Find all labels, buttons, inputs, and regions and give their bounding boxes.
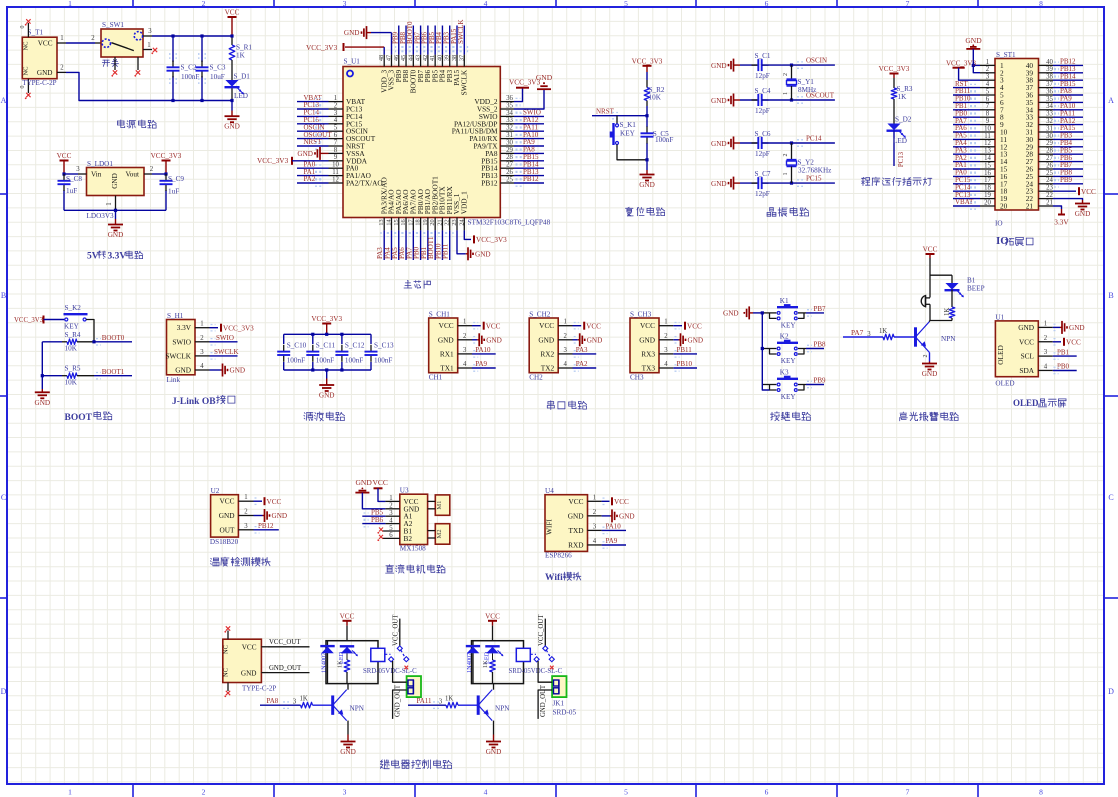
svg-text:SWCLK: SWCLK: [165, 351, 191, 360]
svg-text:ESP8266: ESP8266: [545, 551, 572, 559]
svg-text:PA2: PA2: [304, 175, 316, 183]
svg-text:4: 4: [334, 117, 338, 124]
svg-text:1: 1: [147, 42, 150, 49]
svg-text:1uF: 1uF: [66, 187, 77, 195]
svg-text:27: 27: [1046, 155, 1053, 162]
svg-text:VCC: VCC: [38, 40, 53, 48]
svg-text:S_C11: S_C11: [316, 341, 336, 349]
svg-text:5: 5: [389, 525, 393, 532]
svg-text:PB12: PB12: [481, 179, 498, 188]
svg-text:GND: GND: [475, 250, 491, 258]
svg-text:39: 39: [1046, 66, 1053, 73]
svg-text:SWCLK: SWCLK: [459, 69, 468, 95]
svg-text:4: 4: [1044, 363, 1048, 370]
svg-text:SCL: SCL: [1021, 352, 1035, 361]
svg-text:GND: GND: [37, 69, 53, 77]
svg-text:M2: M2: [436, 529, 443, 538]
svg-text:GND: GND: [711, 180, 727, 188]
svg-text:26: 26: [1046, 162, 1053, 169]
svg-text:VCC: VCC: [1081, 188, 1096, 196]
svg-text:PC15: PC15: [806, 175, 822, 183]
svg-text:3: 3: [867, 331, 871, 338]
svg-text:1: 1: [593, 494, 596, 501]
svg-text:D: D: [1108, 687, 1114, 696]
svg-text:VCC: VCC: [485, 612, 500, 620]
svg-text:35: 35: [506, 102, 513, 109]
svg-text:1N4007: 1N4007: [466, 653, 473, 673]
svg-text:5: 5: [334, 125, 338, 132]
svg-text:2: 2: [783, 154, 789, 157]
svg-text:VCC: VCC: [267, 498, 282, 506]
svg-text:32: 32: [1046, 118, 1053, 125]
svg-text:30: 30: [1046, 133, 1053, 140]
svg-text:22: 22: [1046, 192, 1053, 199]
svg-text:10K: 10K: [65, 345, 78, 353]
svg-text:PC13: PC13: [898, 151, 905, 167]
svg-text:GND: GND: [1018, 323, 1034, 332]
svg-text:M1: M1: [436, 501, 443, 510]
svg-text:VCC_3V3: VCC_3V3: [257, 156, 289, 165]
svg-text:3: 3: [463, 347, 467, 354]
svg-text:3: 3: [200, 349, 204, 356]
svg-text:S_C1: S_C1: [755, 52, 771, 60]
svg-text:RX2: RX2: [540, 349, 554, 358]
svg-text:1K: 1K: [944, 308, 951, 316]
svg-text:6: 6: [986, 96, 990, 103]
svg-text:GND: GND: [319, 392, 335, 400]
svg-text:2: 2: [200, 335, 204, 342]
svg-text:GND: GND: [1075, 210, 1091, 218]
svg-text:S_C2: S_C2: [181, 63, 197, 71]
svg-text:100nF: 100nF: [287, 357, 305, 365]
svg-text:13: 13: [984, 148, 991, 155]
svg-text:1: 1: [244, 494, 247, 501]
svg-text:4: 4: [986, 81, 990, 88]
svg-text:8: 8: [1039, 788, 1043, 797]
svg-text:VCC_OUT: VCC_OUT: [269, 639, 301, 646]
svg-text:1: 1: [334, 95, 337, 102]
svg-text:B2: B2: [404, 534, 413, 543]
svg-text:DS18B20: DS18B20: [210, 538, 239, 546]
svg-text:TX1: TX1: [440, 364, 454, 373]
svg-text:14: 14: [385, 219, 392, 226]
svg-text:VCC_3V3: VCC_3V3: [151, 152, 182, 160]
svg-text:32: 32: [506, 125, 513, 132]
svg-text:7: 7: [906, 0, 910, 8]
svg-text:NC: NC: [23, 41, 30, 50]
svg-text:VCC: VCC: [225, 9, 240, 17]
svg-text:SRD-05VDC-SL-C: SRD-05VDC-SL-C: [363, 668, 417, 675]
svg-text:28: 28: [1046, 148, 1053, 155]
svg-text:24: 24: [1046, 177, 1053, 184]
svg-text:10K: 10K: [649, 93, 662, 101]
svg-text:27: 27: [506, 162, 513, 169]
svg-text:17: 17: [984, 177, 991, 184]
svg-text:NC: NC: [223, 645, 230, 654]
svg-text:17: 17: [407, 219, 414, 225]
svg-text:PB11: PB11: [442, 243, 450, 259]
svg-text:VCC: VCC: [373, 478, 388, 487]
svg-text:PB9: PB9: [1060, 176, 1073, 184]
svg-text:GND: GND: [922, 370, 938, 378]
svg-text:S_C8: S_C8: [66, 175, 82, 183]
svg-text:46: 46: [393, 55, 400, 61]
svg-text:GND: GND: [111, 173, 119, 189]
svg-text:S_R5: S_R5: [65, 365, 81, 373]
svg-text:IO: IO: [995, 220, 1003, 228]
svg-text:2: 2: [664, 333, 668, 340]
svg-text:GND: GND: [35, 399, 51, 407]
svg-text:2: 2: [334, 102, 338, 109]
svg-text:1K: 1K: [898, 93, 908, 101]
svg-text:C: C: [1, 493, 6, 502]
svg-text:1K: 1K: [879, 328, 887, 335]
svg-text:NRST: NRST: [596, 108, 615, 116]
svg-text:D: D: [1, 687, 7, 696]
svg-text:TXD: TXD: [569, 526, 584, 535]
svg-text:VCC: VCC: [568, 497, 583, 506]
svg-text:42: 42: [422, 55, 429, 61]
svg-text:12pF: 12pF: [755, 72, 770, 80]
svg-text:GND: GND: [272, 512, 288, 520]
svg-text:19: 19: [422, 219, 429, 225]
svg-text:22: 22: [444, 219, 451, 225]
svg-text:4: 4: [200, 363, 204, 370]
svg-text:5: 5: [986, 88, 990, 95]
svg-text:2: 2: [202, 0, 206, 8]
svg-text:S_ST1: S_ST1: [996, 51, 1016, 59]
svg-text:TYPE-C-2P: TYPE-C-2P: [22, 79, 56, 87]
svg-text:GND: GND: [536, 73, 553, 82]
svg-text:36: 36: [1046, 88, 1053, 95]
svg-text:GND: GND: [711, 62, 727, 70]
svg-text:16: 16: [400, 219, 407, 225]
svg-text:TYPE-C-2P: TYPE-C-2P: [242, 685, 276, 693]
svg-text:3.3V: 3.3V: [108, 251, 127, 261]
svg-text:VCC: VCC: [486, 322, 501, 330]
svg-text:38: 38: [1046, 74, 1053, 81]
svg-text:S_Y2: S_Y2: [798, 159, 815, 167]
svg-text:KEY: KEY: [781, 393, 797, 401]
svg-text:A: A: [1108, 96, 1114, 105]
svg-text:GND: GND: [344, 29, 360, 37]
svg-text:VCC: VCC: [219, 497, 234, 506]
svg-text:C: C: [1108, 493, 1113, 502]
svg-text:3: 3: [1044, 349, 1048, 356]
svg-text:VCC_3V3: VCC_3V3: [306, 43, 338, 52]
svg-text:S_H1: S_H1: [167, 312, 184, 320]
svg-text:21: 21: [1046, 199, 1053, 206]
svg-text:31: 31: [1046, 125, 1053, 132]
svg-text:28: 28: [506, 154, 513, 161]
svg-text:GND: GND: [230, 367, 246, 375]
svg-text:PA10: PA10: [606, 523, 622, 531]
svg-text:37: 37: [1046, 81, 1053, 88]
svg-text:GND: GND: [219, 511, 235, 520]
svg-text:2: 2: [150, 166, 154, 173]
svg-text:35: 35: [1046, 96, 1053, 103]
svg-text:S_K1: S_K1: [620, 121, 637, 129]
svg-text:VCC: VCC: [923, 246, 938, 254]
svg-text:GND_OUT: GND_OUT: [394, 684, 401, 717]
svg-text:1K: 1K: [482, 660, 489, 668]
svg-text:6: 6: [334, 132, 338, 139]
svg-text:13: 13: [378, 219, 385, 225]
svg-text:40: 40: [436, 55, 443, 61]
svg-text:VCC_OUT: VCC_OUT: [538, 614, 545, 646]
svg-text:43: 43: [415, 55, 422, 61]
svg-text:S_C12: S_C12: [345, 341, 365, 349]
svg-text:44: 44: [407, 54, 414, 61]
svg-text:S_Y1: S_Y1: [798, 78, 815, 86]
svg-text:VCC: VCC: [687, 322, 702, 330]
svg-text:OLED: OLED: [995, 380, 1014, 388]
svg-text:3: 3: [439, 699, 443, 706]
svg-text:29: 29: [1046, 140, 1053, 147]
svg-text:B: B: [1108, 291, 1113, 300]
svg-text:VCC: VCC: [242, 643, 257, 651]
svg-text:VDD_1: VDD_1: [459, 191, 468, 214]
svg-text:11: 11: [984, 133, 991, 140]
svg-text:TX2: TX2: [541, 364, 555, 373]
svg-text:GND: GND: [587, 336, 603, 344]
svg-text:2: 2: [1044, 335, 1048, 342]
svg-text:1: 1: [200, 321, 203, 328]
svg-text:GND: GND: [486, 748, 502, 756]
svg-text:S_D1: S_D1: [234, 73, 251, 81]
svg-text:LED: LED: [234, 92, 248, 100]
svg-text:PA7: PA7: [851, 328, 864, 337]
svg-text:100nF: 100nF: [345, 357, 363, 365]
svg-text:VCC: VCC: [586, 322, 601, 330]
svg-text:PB8: PB8: [814, 341, 827, 349]
svg-text:8: 8: [1039, 0, 1043, 8]
svg-text:Vin: Vin: [91, 171, 102, 179]
svg-text:12: 12: [984, 140, 991, 147]
svg-text:U3: U3: [400, 487, 409, 495]
svg-text:S_C9: S_C9: [168, 175, 184, 183]
svg-text:12: 12: [332, 176, 339, 183]
svg-text:26: 26: [506, 169, 513, 176]
svg-text:1: 1: [664, 319, 667, 326]
svg-text:34: 34: [506, 110, 513, 117]
svg-text:25: 25: [506, 176, 513, 183]
svg-text:2: 2: [463, 333, 467, 340]
svg-text:PB9: PB9: [814, 377, 827, 385]
svg-text:VCC_3V3: VCC_3V3: [223, 324, 254, 332]
svg-text:SWIO: SWIO: [216, 334, 234, 342]
svg-text:20: 20: [429, 219, 436, 225]
svg-text:3: 3: [986, 74, 990, 81]
svg-text:100nF: 100nF: [655, 136, 673, 144]
svg-text:OLED: OLED: [1013, 398, 1039, 408]
svg-text:S_SW1: S_SW1: [102, 21, 124, 29]
svg-text:NPN: NPN: [941, 335, 956, 343]
svg-text:J-Link OB: J-Link OB: [172, 397, 216, 407]
svg-text:U2: U2: [211, 487, 220, 495]
svg-text:2: 2: [923, 355, 929, 358]
svg-text:TX3: TX3: [642, 364, 656, 373]
svg-text:8: 8: [986, 111, 990, 118]
svg-text:3: 3: [334, 110, 338, 117]
svg-text:S_C6: S_C6: [755, 130, 771, 138]
svg-text:VCC: VCC: [340, 612, 355, 620]
svg-text:7: 7: [906, 788, 910, 797]
svg-text:2: 2: [60, 65, 64, 72]
svg-text:GND: GND: [688, 336, 704, 344]
svg-text:1: 1: [389, 495, 392, 502]
svg-text:GND: GND: [619, 513, 635, 521]
svg-text:6: 6: [765, 0, 769, 8]
svg-text:VCC_3V3: VCC_3V3: [946, 60, 976, 68]
svg-text:K2: K2: [780, 333, 789, 341]
svg-text:1: 1: [60, 35, 63, 42]
svg-text:PC14: PC14: [806, 135, 822, 143]
svg-text:45: 45: [400, 55, 407, 61]
svg-text:33: 33: [506, 117, 513, 124]
svg-text:VCC: VCC: [1066, 339, 1081, 347]
svg-text:10: 10: [984, 125, 991, 132]
svg-text:S_R3: S_R3: [897, 85, 913, 93]
svg-text:VCC_3V3: VCC_3V3: [632, 57, 663, 65]
svg-text:IO: IO: [996, 235, 1009, 247]
svg-text:GND: GND: [965, 36, 982, 45]
svg-text:18: 18: [415, 219, 422, 225]
svg-text:6: 6: [765, 788, 769, 797]
svg-text:GND: GND: [108, 231, 124, 239]
svg-text:S_C4: S_C4: [755, 87, 771, 95]
svg-text:SWIO: SWIO: [172, 337, 191, 346]
svg-text:VCC_3V3: VCC_3V3: [879, 65, 910, 73]
svg-text:VCC_3V3: VCC_3V3: [14, 317, 44, 324]
svg-text:S_K2: S_K2: [65, 304, 82, 312]
svg-text:KEY: KEY: [781, 321, 797, 329]
svg-text:5: 5: [624, 788, 628, 797]
svg-text:8: 8: [334, 147, 338, 154]
svg-text:18: 18: [984, 185, 991, 192]
svg-text:NC: NC: [223, 668, 230, 677]
svg-text:1: 1: [68, 0, 72, 8]
svg-text:OUT: OUT: [220, 525, 236, 534]
svg-text:S_D2: S_D2: [895, 116, 912, 124]
svg-text:16: 16: [984, 170, 991, 177]
svg-text:U1: U1: [995, 314, 1004, 322]
svg-text:29: 29: [506, 147, 513, 154]
svg-text:12pF: 12pF: [755, 150, 770, 158]
svg-text:1: 1: [783, 173, 789, 176]
svg-text:LDO3V3: LDO3V3: [87, 212, 115, 220]
svg-text:20: 20: [984, 199, 991, 206]
svg-text:15: 15: [984, 162, 991, 169]
svg-text:PB12: PB12: [258, 522, 274, 530]
svg-text:100nF: 100nF: [316, 357, 334, 365]
svg-text:4: 4: [463, 361, 467, 368]
svg-text:23: 23: [1046, 185, 1053, 192]
svg-text:9: 9: [986, 118, 990, 125]
svg-text:Link: Link: [167, 376, 181, 384]
svg-text:PA8: PA8: [267, 697, 279, 705]
svg-text:33: 33: [1046, 111, 1053, 118]
svg-text:4: 4: [563, 361, 567, 368]
svg-text:BOOT: BOOT: [65, 413, 93, 423]
svg-text:SDA: SDA: [1019, 366, 1034, 375]
svg-text:15: 15: [393, 219, 400, 225]
svg-text:PA2: PA2: [576, 360, 588, 368]
svg-text:7: 7: [334, 139, 338, 146]
svg-text:3.3V: 3.3V: [177, 323, 192, 332]
svg-text:GND: GND: [711, 97, 727, 105]
svg-text:38: 38: [451, 55, 458, 61]
svg-text:RX3: RX3: [641, 349, 655, 358]
svg-text:10: 10: [332, 162, 339, 169]
svg-text:PA11: PA11: [417, 697, 433, 705]
svg-text:1: 1: [563, 319, 566, 326]
svg-text:GND: GND: [568, 511, 584, 520]
svg-text:S_T1: S_T1: [28, 29, 44, 37]
svg-text:VCC: VCC: [439, 321, 454, 330]
svg-text:5V: 5V: [87, 251, 99, 261]
svg-text:GND: GND: [639, 181, 655, 189]
svg-text:2: 2: [91, 35, 95, 42]
svg-text:VCC: VCC: [614, 498, 629, 506]
svg-text:LED: LED: [893, 137, 907, 145]
svg-text:21: 21: [436, 219, 443, 225]
svg-text:SWCLK: SWCLK: [214, 348, 239, 356]
svg-text:PA2/TX/AO: PA2/TX/AO: [346, 179, 383, 188]
svg-text:NPN: NPN: [350, 705, 365, 713]
svg-text:JK1: JK1: [553, 700, 565, 708]
svg-text:21: 21: [1026, 202, 1034, 211]
svg-text:KEY: KEY: [620, 130, 636, 138]
svg-text:1uF: 1uF: [168, 188, 179, 196]
svg-text:4: 4: [484, 788, 488, 797]
svg-text:41: 41: [429, 55, 436, 61]
svg-text:30: 30: [506, 139, 513, 146]
svg-text:K1: K1: [780, 297, 789, 305]
svg-text:S_C13: S_C13: [374, 341, 394, 349]
svg-text:12pF: 12pF: [755, 107, 770, 115]
svg-text:VCC: VCC: [640, 321, 655, 330]
svg-text:NC: NC: [23, 66, 30, 75]
svg-text:VCC_3V3: VCC_3V3: [311, 315, 342, 323]
svg-text:VCC_3V3: VCC_3V3: [476, 236, 507, 244]
svg-text:GND: GND: [486, 336, 502, 344]
svg-text:GND: GND: [711, 140, 727, 148]
svg-text:2: 2: [986, 66, 990, 73]
svg-text:6: 6: [389, 532, 393, 539]
svg-text:10uF: 10uF: [210, 73, 225, 81]
svg-text:48: 48: [378, 55, 385, 61]
svg-text:19: 19: [984, 192, 991, 199]
svg-text:S_C10: S_C10: [287, 341, 307, 349]
svg-text:VCC: VCC: [57, 152, 72, 160]
svg-text:4: 4: [664, 361, 668, 368]
svg-text:Vout: Vout: [126, 171, 139, 179]
svg-text:BOOT0: BOOT0: [102, 334, 125, 342]
svg-text:VCC: VCC: [539, 321, 554, 330]
svg-text:2: 2: [563, 333, 567, 340]
svg-text:CH2: CH2: [529, 374, 543, 382]
svg-text:S_R4: S_R4: [65, 331, 81, 339]
svg-text:1K: 1K: [236, 52, 246, 60]
svg-text:KEY: KEY: [64, 323, 80, 331]
svg-text:S_C3: S_C3: [210, 63, 226, 71]
svg-text:OLED: OLED: [996, 345, 1005, 364]
svg-text:47: 47: [385, 55, 392, 61]
svg-text:2: 2: [244, 509, 248, 516]
svg-text:3: 3: [76, 166, 80, 173]
svg-text:MX1508: MX1508: [400, 544, 426, 552]
